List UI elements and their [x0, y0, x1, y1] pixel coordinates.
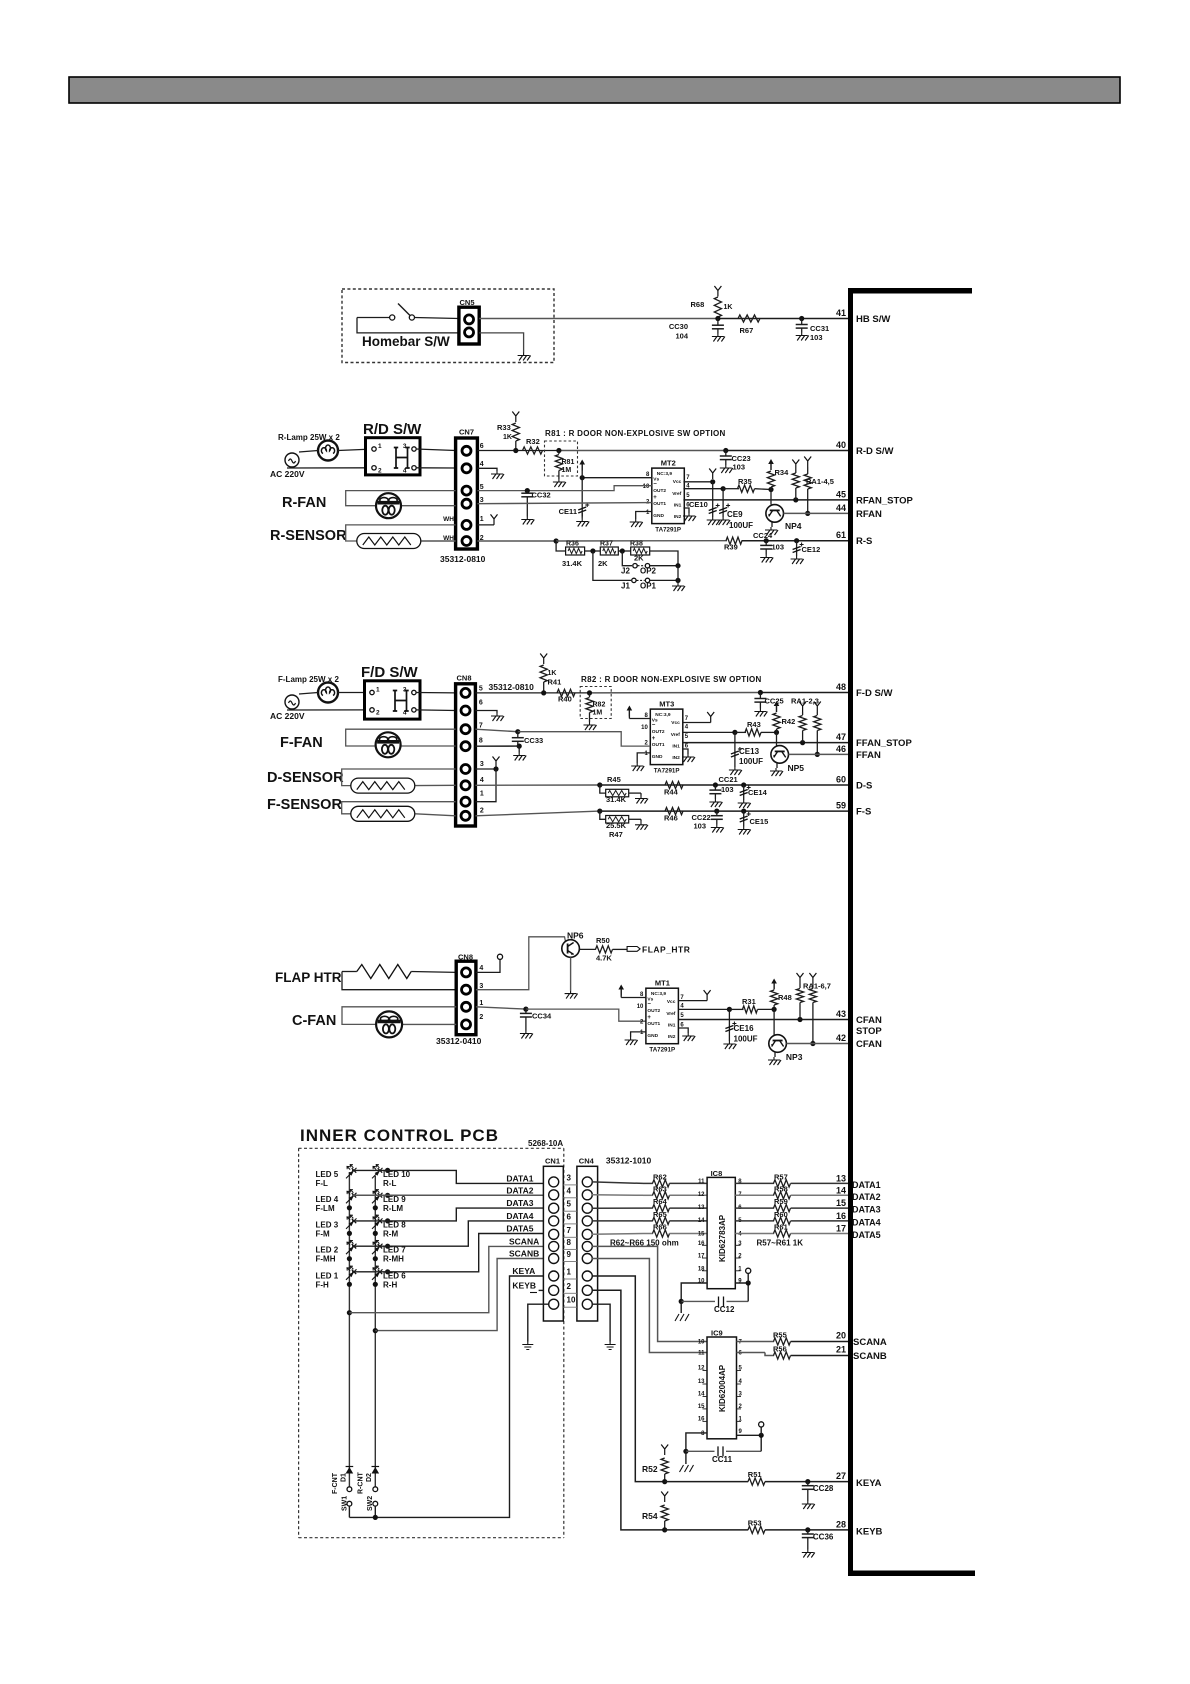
- wire R-SENSOR loop: [346, 525, 456, 541]
- svg-text:CE12: CE12: [802, 545, 821, 554]
- svg-text:46: 46: [836, 744, 846, 754]
- svg-text:60: 60: [836, 775, 846, 785]
- svg-text:R62: R62: [653, 1172, 667, 1181]
- svg-text:4: 4: [479, 965, 483, 972]
- svg-text:OUT1: OUT1: [647, 1021, 660, 1027]
- svg-text:R58: R58: [774, 1184, 788, 1193]
- svg-text:61: 61: [836, 530, 846, 540]
- resistor RA1-2,3 right: [814, 702, 821, 713]
- svg-text:1: 1: [479, 1000, 483, 1007]
- svg-text:KID62004AP: KID62004AP: [718, 1364, 727, 1412]
- wire CN1 pin10 ground: [528, 1304, 549, 1341]
- svg-text:R81 : R DOOR NON-EXPLOSIVE SW: R81 : R DOOR NON-EXPLOSIVE SW OPTION: [545, 429, 726, 438]
- svg-text:F-D S/W: F-D S/W: [856, 688, 892, 699]
- diode LED 2: [346, 1244, 357, 1255]
- svg-text:6: 6: [480, 443, 484, 450]
- inner control pcb dashed box: [299, 1148, 564, 1537]
- diode LED 1: [346, 1269, 357, 1280]
- capacitor CC21 103: [713, 782, 718, 787]
- svg-text:R56: R56: [773, 1345, 787, 1354]
- svg-text:4.7K: 4.7K: [596, 954, 612, 963]
- resistor R33 1K pull-up: [512, 412, 519, 423]
- wire CN4 pin10 ground: [592, 1304, 610, 1341]
- svg-text:35312-1010: 35312-1010: [606, 1156, 652, 1166]
- diode LED 5: [346, 1168, 357, 1179]
- resistor R60 1K: [774, 1217, 791, 1224]
- svg-text:R34: R34: [775, 468, 790, 477]
- svg-text:R82: R82: [593, 702, 606, 709]
- svg-text:15: 15: [836, 1198, 846, 1208]
- svg-text:WH: WH: [443, 516, 454, 523]
- svg-text:NC:3,9: NC:3,9: [655, 712, 671, 718]
- svg-text:R68: R68: [691, 300, 705, 309]
- capacitor CC23 103: [723, 448, 728, 453]
- svg-text:6: 6: [479, 700, 483, 707]
- svg-text:3: 3: [403, 443, 407, 450]
- svg-text:IN1: IN1: [668, 1023, 676, 1029]
- svg-text:7: 7: [479, 723, 483, 730]
- divider R38 2K: [618, 550, 631, 552]
- svg-text:R52: R52: [642, 1464, 658, 1474]
- svg-text:MT1: MT1: [655, 979, 670, 988]
- wire SCANB to LED bus: [377, 1259, 543, 1331]
- IC MT2 TA7291P: [652, 468, 685, 523]
- svg-text:KEYB: KEYB: [856, 1527, 883, 1538]
- svg-text:2K: 2K: [598, 559, 608, 568]
- diode LED 10: [372, 1168, 383, 1179]
- svg-text:3: 3: [480, 761, 484, 768]
- pin 43 CFAN STOP wire: [678, 1019, 848, 1021]
- svg-text:CC12: CC12: [714, 1305, 735, 1314]
- resistor R63 150ohm: [653, 1192, 670, 1199]
- capacitor CC36: [805, 1527, 810, 1532]
- wire SCANA CN4 to IC9: [592, 1246, 707, 1341]
- svg-text:CC32: CC32: [532, 491, 551, 500]
- svg-text:3: 3: [567, 1173, 572, 1182]
- wire R-FAN loop: [346, 491, 456, 506]
- wire F-SENSOR loop: [342, 802, 456, 814]
- svg-text:1: 1: [567, 1268, 572, 1277]
- wire F-D S/W net pin 48: [475, 692, 543, 694]
- svg-text:3: 3: [479, 983, 483, 990]
- Homebar S/W dashed enclosure: [342, 289, 554, 363]
- svg-text:D-SENSOR: D-SENSOR: [267, 770, 344, 786]
- svg-text:R60: R60: [774, 1210, 788, 1219]
- svg-text:AC 220V: AC 220V: [270, 469, 305, 479]
- svg-text:IN2: IN2: [668, 1034, 676, 1040]
- svg-text:OUT2: OUT2: [653, 488, 666, 494]
- main PCB block bus bar: [848, 288, 853, 1576]
- svg-text:RFAN: RFAN: [856, 509, 882, 520]
- svg-text:F-M: F-M: [316, 1229, 331, 1238]
- svg-text:R33: R33: [497, 423, 511, 432]
- resistor R41 1K pull-up: [540, 654, 547, 665]
- wire NP3 emitter ground: [774, 1052, 776, 1057]
- svg-text:IC9: IC9: [711, 1329, 723, 1338]
- svg-text:R67: R67: [740, 326, 754, 335]
- svg-text:FFAN_STOP: FFAN_STOP: [856, 738, 912, 749]
- resistor R61 1K: [774, 1230, 791, 1237]
- svg-text:R-LM: R-LM: [383, 1204, 403, 1213]
- capacitor CE15: [741, 809, 746, 814]
- svg-text:−: −: [652, 723, 656, 729]
- svg-text:F/D S/W: F/D S/W: [361, 664, 419, 681]
- svg-text:R-MH: R-MH: [383, 1255, 404, 1264]
- wire LED row 1: [385, 1168, 390, 1173]
- svg-text:−: −: [653, 482, 657, 488]
- svg-text:8: 8: [479, 738, 483, 745]
- wire KEYB stub: [539, 1289, 544, 1291]
- wire R/D box to CN7: [416, 449, 456, 451]
- wires CN4 to R62-R66 and IC8: [592, 1182, 643, 1184]
- capacitor CC11: [686, 1450, 715, 1452]
- wire LED row 4: [385, 1244, 390, 1249]
- svg-text:LED 2: LED 2: [316, 1246, 339, 1255]
- wire IC8 pin9 terminal: [735, 1283, 748, 1301]
- svg-text:10: 10: [643, 484, 650, 490]
- svg-text:DATA5: DATA5: [506, 1224, 533, 1234]
- svg-text:12: 12: [698, 1192, 705, 1198]
- LED right bus: [374, 1176, 376, 1469]
- wire D-SENSOR loop: [342, 769, 456, 786]
- capacitor CC34: [525, 1009, 527, 1013]
- svg-text:IN1: IN1: [674, 503, 682, 509]
- svg-text:CN4: CN4: [579, 1157, 595, 1166]
- resistor R82 1M in dashed box: [587, 690, 592, 695]
- wire R48 junction to NP3 base: [773, 1009, 775, 1035]
- svg-text:LED 5: LED 5: [316, 1170, 339, 1179]
- svg-text:DATA3: DATA3: [506, 1198, 533, 1208]
- lamp R-Lamp: [318, 441, 338, 461]
- svg-text:Vcc: Vcc: [667, 999, 676, 1005]
- CN6 pin6 ground: [475, 711, 497, 714]
- wire C-FAN loop: [342, 1007, 456, 1025]
- svg-text:R-S: R-S: [856, 536, 872, 547]
- svg-text:CC28: CC28: [813, 1484, 834, 1493]
- svg-text:DATA4: DATA4: [852, 1217, 881, 1227]
- wire R42 junction to NP5 base: [776, 732, 778, 746]
- LED left bus: [348, 1172, 350, 1469]
- diode LED 9: [372, 1193, 383, 1204]
- svg-text:2: 2: [479, 1014, 483, 1021]
- wire MT3 GND to ground: [637, 753, 650, 763]
- svg-text:R53: R53: [748, 1519, 762, 1528]
- svg-text:6: 6: [567, 1212, 572, 1221]
- svg-text:44: 44: [836, 503, 846, 513]
- wire HB S/W net to pin 41: [479, 318, 718, 320]
- svg-text:SCANA: SCANA: [509, 1236, 539, 1246]
- wire IC8 pin10 CC12: [681, 1283, 707, 1301]
- svg-text:NP5: NP5: [788, 763, 805, 773]
- wire IC9 pin9 terminal: [737, 1435, 762, 1451]
- wire KEYB CN4 route: [592, 1290, 665, 1530]
- capacitor CC32: [525, 488, 530, 493]
- capacitor CE9 100UF: [722, 489, 724, 517]
- wire switch common to KEYA: [349, 1516, 375, 1518]
- svg-text:STOP: STOP: [856, 1026, 882, 1037]
- svg-text:D1: D1: [341, 1473, 348, 1482]
- wire F-S net pin 59: [475, 811, 599, 816]
- svg-text:17: 17: [698, 1254, 705, 1260]
- wire F-FAN loop: [346, 729, 456, 746]
- wire CN7 pin3 to MT2 OUT1: [477, 503, 651, 504]
- capacitor CC12: [681, 1300, 715, 1302]
- wire NP5 collector to pin 46: [789, 753, 849, 755]
- transistor NP6: [562, 940, 580, 958]
- thermistor D-SENSOR: [351, 778, 415, 793]
- svg-text:SCANB: SCANB: [509, 1249, 539, 1259]
- svg-text:1: 1: [480, 516, 484, 523]
- resistor R62 150ohm: [653, 1180, 670, 1187]
- resistor R65 150ohm: [653, 1217, 670, 1224]
- wire MT2 Vref through R35: [683, 488, 723, 490]
- svg-text:R51: R51: [748, 1470, 762, 1479]
- svg-text:7: 7: [567, 1226, 572, 1235]
- svg-text:14: 14: [698, 1218, 705, 1224]
- svg-text:41: 41: [836, 308, 846, 318]
- svg-text:42: 42: [836, 1033, 846, 1043]
- svg-text:10: 10: [567, 1296, 576, 1305]
- svg-text:18: 18: [698, 1266, 705, 1272]
- ground MT1 right: [678, 1028, 688, 1033]
- wire LED row 5: [385, 1269, 390, 1274]
- svg-text:31.4K: 31.4K: [562, 559, 583, 568]
- resistor R56 SCANB: [737, 1352, 766, 1354]
- svg-text:103: 103: [694, 822, 707, 831]
- svg-text:Vref: Vref: [671, 732, 680, 738]
- resistor R55 SCANA: [737, 1341, 775, 1343]
- svg-text:59: 59: [836, 801, 846, 811]
- svg-text:GND: GND: [652, 754, 663, 760]
- svg-text:R42: R42: [782, 717, 796, 726]
- svg-text:KID62783AP: KID62783AP: [718, 1214, 727, 1262]
- resistor R68 1K pull-up: [714, 286, 721, 297]
- svg-text:11: 11: [698, 1179, 705, 1185]
- svg-text:F-MH: F-MH: [316, 1255, 336, 1264]
- svg-text:R57~R61 1K: R57~R61 1K: [757, 1239, 804, 1248]
- resistor RA1-4,5 right: [804, 457, 811, 468]
- AC source 220V F: [285, 695, 299, 709]
- svg-text:40: 40: [836, 440, 846, 450]
- svg-text:2: 2: [376, 710, 380, 717]
- svg-text:Vcc: Vcc: [671, 720, 680, 726]
- capacitor CE12: [794, 538, 799, 543]
- svg-text:CE14: CE14: [748, 788, 768, 797]
- wire AC to R/D box: [299, 451, 318, 453]
- svg-text:CN1: CN1: [545, 1157, 560, 1166]
- CN7 pin1 pull-up: [477, 524, 494, 526]
- svg-text:CFAN: CFAN: [856, 1015, 882, 1026]
- divider R36 31.4K: [556, 541, 566, 551]
- wires IC8 to R57-R61: [735, 1182, 774, 1184]
- svg-text:13: 13: [836, 1173, 846, 1183]
- capacitor CE11: [578, 507, 586, 513]
- svg-text:CE15: CE15: [750, 817, 769, 826]
- svg-text:R-M: R-M: [383, 1229, 398, 1238]
- svg-text:F-FAN: F-FAN: [280, 735, 323, 751]
- svg-text:R65: R65: [653, 1210, 667, 1219]
- wire CN8 pin4 to terminal: [476, 960, 500, 973]
- svg-text:CC24: CC24: [753, 531, 773, 540]
- CN7 pin4 ground: [477, 468, 497, 471]
- capacitor CC28: [805, 1479, 810, 1484]
- wire LED row 3: [385, 1218, 390, 1223]
- svg-text:1: 1: [376, 687, 380, 694]
- capacitor CC33: [517, 732, 519, 738]
- svg-text:4: 4: [567, 1186, 572, 1195]
- svg-text:CE16: CE16: [734, 1024, 755, 1033]
- svg-text:C-FAN: C-FAN: [292, 1013, 336, 1029]
- svg-text:31.4K: 31.4K: [606, 795, 627, 804]
- svg-text:R45: R45: [607, 775, 621, 784]
- diode LED 4: [346, 1193, 357, 1204]
- ground CC11: [685, 1451, 687, 1464]
- capacitor CE16 100UF: [728, 1009, 730, 1041]
- wire CN7 pin5 to MT2 OUT2: [477, 486, 651, 491]
- svg-text:48: 48: [836, 682, 846, 692]
- svg-text:NP6: NP6: [567, 931, 584, 941]
- svg-text:16: 16: [836, 1211, 846, 1221]
- pin 47 FFAN_STOP wire: [683, 742, 848, 744]
- resistor R64 150ohm: [653, 1205, 670, 1212]
- wire MT2 GND to ground: [636, 512, 652, 520]
- wire MT3 Vs supply: [629, 718, 650, 720]
- wire NP3 collector to pin 42: [786, 1043, 848, 1045]
- resistor RA1-2,3 left: [799, 702, 806, 713]
- svg-text:RA1-4,5: RA1-4,5: [806, 477, 834, 486]
- svg-text:R63: R63: [653, 1184, 667, 1193]
- svg-text:R31: R31: [742, 997, 756, 1006]
- svg-text:NC:3,9: NC:3,9: [651, 991, 667, 997]
- CN6 pin3 pull-up and pin1 tie: [475, 768, 496, 770]
- ground OP node: [672, 583, 685, 591]
- svg-text:LED 3: LED 3: [316, 1220, 339, 1229]
- svg-text:F-S: F-S: [856, 807, 871, 818]
- svg-text:5: 5: [479, 686, 483, 693]
- svg-text:OP1: OP1: [640, 582, 657, 591]
- svg-text:+: +: [653, 495, 657, 501]
- resistor R34 pull-up: [770, 463, 772, 470]
- svg-text:CFAN: CFAN: [856, 1039, 882, 1050]
- thermistor F-SENSOR: [351, 806, 415, 821]
- resistor R51: [748, 1478, 765, 1485]
- svg-text:103: 103: [772, 543, 785, 552]
- capacitor CC31 103: [799, 316, 804, 321]
- svg-text:R54: R54: [642, 1511, 658, 1521]
- svg-text:CC21: CC21: [719, 775, 738, 784]
- svg-text:35312-0810: 35312-0810: [440, 554, 486, 564]
- IC MT1 TA7291P: [646, 988, 679, 1043]
- wire R38 to OP2 node: [650, 551, 678, 566]
- IC MT3 TA7291P: [650, 709, 683, 765]
- svg-text:Vcc: Vcc: [673, 479, 682, 485]
- wire KEYA CN4 route: [592, 1276, 665, 1482]
- jumper J2 OP2: [622, 551, 632, 566]
- transistor NP5: [771, 746, 789, 764]
- resistor R32: [523, 447, 543, 454]
- FLAP_HTR tag: [627, 947, 640, 952]
- wire homebar lower loop: [357, 318, 459, 333]
- ground MT3 right: [683, 749, 688, 754]
- svg-text:3: 3: [480, 497, 484, 504]
- wire IC9 pin8 CC11: [686, 1433, 707, 1451]
- transistor NP4: [766, 505, 784, 523]
- svg-text:LED 1: LED 1: [316, 1271, 339, 1280]
- resistor RA1-4,5 left: [792, 460, 799, 471]
- svg-text:R48: R48: [778, 993, 792, 1002]
- svg-text:R-SENSOR: R-SENSOR: [270, 528, 347, 544]
- svg-text:R38: R38: [630, 541, 643, 548]
- svg-text:+: +: [647, 1015, 651, 1021]
- wire CN5 pin2 to ground: [479, 333, 523, 353]
- svg-text:2K: 2K: [634, 554, 644, 563]
- svg-text:R40: R40: [558, 695, 572, 704]
- wire KEYA to switches: [375, 1276, 543, 1517]
- svg-text:R57: R57: [774, 1172, 788, 1181]
- svg-text:F-H: F-H: [316, 1280, 330, 1289]
- svg-text:F-CNT: F-CNT: [332, 1472, 339, 1494]
- svg-text:103: 103: [810, 333, 823, 342]
- svg-text:GND: GND: [653, 513, 664, 519]
- svg-text:20: 20: [836, 1331, 846, 1341]
- svg-text:CN8: CN8: [457, 674, 472, 683]
- svg-text:OP2: OP2: [640, 567, 657, 576]
- svg-text:F-SENSOR: F-SENSOR: [267, 797, 342, 813]
- svg-text:15: 15: [698, 1231, 705, 1237]
- wire D-S net pin 60: [475, 784, 599, 786]
- svg-text:+: +: [652, 736, 656, 742]
- capacitor CC22 103: [714, 809, 719, 814]
- svg-text:104: 104: [675, 332, 688, 341]
- svg-text:R36: R36: [566, 541, 579, 548]
- svg-text:TA7291P: TA7291P: [655, 527, 681, 534]
- IC9 KID62004AP: [707, 1337, 737, 1439]
- svg-text:GND: GND: [647, 1033, 658, 1039]
- svg-text:NP4: NP4: [785, 521, 802, 531]
- svg-text:KEYA: KEYA: [512, 1266, 535, 1276]
- diode LED 3: [346, 1218, 357, 1229]
- svg-text:R-CNT: R-CNT: [358, 1472, 365, 1494]
- wire NP5 emitter ground: [776, 763, 778, 768]
- svg-text:OUT1: OUT1: [653, 501, 666, 507]
- svg-text:1: 1: [378, 443, 382, 450]
- svg-text:OUT2: OUT2: [647, 1008, 660, 1014]
- svg-text:HB S/W: HB S/W: [856, 314, 890, 325]
- svg-text:R82 : R DOOR NON-EXPLOSIVE SW: R82 : R DOOR NON-EXPLOSIVE SW OPTION: [581, 675, 762, 684]
- thermistor R-SENSOR: [357, 534, 421, 549]
- IC8 KID62783AP: [707, 1177, 735, 1288]
- capacitor CC24 103: [764, 538, 769, 543]
- svg-text:R/D S/W: R/D S/W: [363, 421, 422, 438]
- svg-text:1M: 1M: [593, 710, 603, 717]
- svg-text:43: 43: [836, 1009, 846, 1019]
- switch SW2: [373, 1487, 378, 1492]
- svg-text:1: 1: [480, 791, 484, 798]
- capacitor CE13 100UF: [734, 732, 736, 767]
- resistor R50 4.7K: [579, 948, 596, 950]
- svg-text:35312-0410: 35312-0410: [436, 1036, 482, 1046]
- svg-text:100UF: 100UF: [739, 757, 763, 766]
- svg-text:DATA4: DATA4: [506, 1211, 533, 1221]
- resistor R53: [748, 1526, 765, 1533]
- svg-text:13: 13: [698, 1205, 705, 1211]
- wire KEYA line: [665, 1481, 749, 1483]
- wire CN8 pin1 to MT1 OUT1: [476, 1007, 526, 1009]
- svg-text:16: 16: [698, 1241, 705, 1247]
- ground MT2 right: [683, 508, 689, 513]
- lamp F-Lamp: [318, 683, 338, 703]
- svg-text:RA1-6,7: RA1-6,7: [803, 982, 831, 991]
